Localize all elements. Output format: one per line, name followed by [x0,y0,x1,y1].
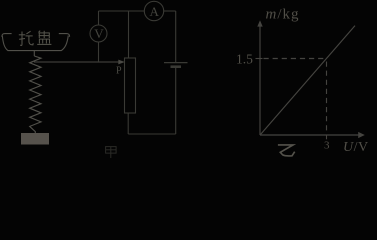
wire battery branch lower [175,68,177,134]
svg-text:1.5: 1.5 [236,51,253,66]
stem from tray to spring [33,51,35,56]
label 甲 [106,147,117,158]
svg-text:A: A [150,4,160,19]
y-axis arrowhead [257,20,262,26]
tick at 3 [326,135,328,139]
wire V top stem [98,11,100,25]
wiper rod wire [34,61,118,63]
svg-text:P: P [116,66,122,77]
tray label 托 [19,31,33,45]
ammeter A circle [144,1,163,20]
wire V bottom stem [98,42,100,62]
tray label 盘 [37,31,51,45]
dashed vertical at 3 [326,62,328,132]
voltmeter V circle [90,25,107,42]
graph y-axis [259,26,261,135]
svg-text:m/kg: m/kg [266,6,300,22]
dashed horizontal at 1.5 [264,58,327,60]
wire battery branch upper [175,11,177,62]
battery short plate [171,65,182,68]
spring [30,56,41,133]
svg-text:V: V [94,26,104,41]
tray 托盘 outline [2,34,70,51]
svg-text:3: 3 [324,140,330,152]
wire top rail right [164,10,176,12]
wire rheostat top drop [128,11,130,58]
wire rheostat bottom riser [127,113,129,134]
rheostat R body [125,58,136,113]
label 乙 [278,145,295,156]
battery long plate [164,62,188,64]
tick at 1.5 [256,58,263,60]
graph line [260,26,355,135]
wire top rail left [99,10,145,12]
svg-text:U/V: U/V [343,140,369,155]
wire bottom rail [128,133,176,135]
x-axis arrowhead [358,132,365,138]
graph x-axis [260,134,358,136]
wiper arrowhead P [118,60,125,65]
base block [21,133,49,145]
